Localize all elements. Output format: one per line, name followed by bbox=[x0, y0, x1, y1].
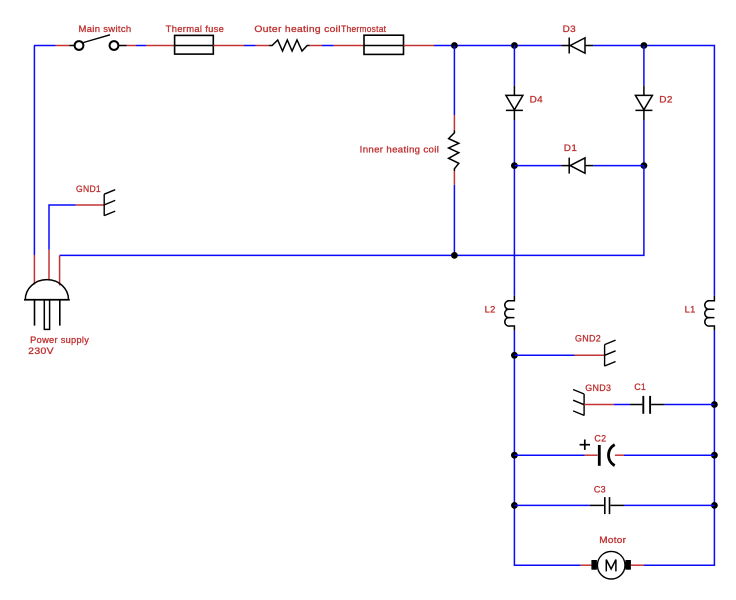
wire red lead out of switch bbox=[127, 45, 137, 47]
junction node GND2 tap bbox=[511, 352, 518, 359]
svg-text:D3: D3 bbox=[563, 24, 576, 34]
junction node C3 right bbox=[711, 502, 718, 509]
junction node top of D4 column bbox=[511, 42, 518, 49]
capacitor C2 plates bbox=[599, 445, 614, 466]
wire red lead into thermal fuse bbox=[146, 45, 175, 47]
wire red lead into outer heating coil bbox=[256, 45, 270, 47]
junction node D2-D1 bbox=[641, 162, 648, 169]
wire blue C2 to right rail bbox=[624, 454, 714, 456]
wire blue from top junction down to D2 bbox=[643, 46, 645, 86]
svg-text:L2: L2 bbox=[485, 305, 496, 315]
wire top rail blue segment to switch bbox=[34, 45, 56, 47]
wire blue C1 to right rail bbox=[664, 404, 714, 406]
motor terminal left bbox=[591, 560, 597, 570]
wire red lead out of motor right bbox=[631, 564, 644, 566]
junction node top of inner heating coil bbox=[451, 42, 458, 49]
svg-text:Inner heating coil: Inner heating coil bbox=[360, 145, 440, 155]
wire blue C3 to right rail bbox=[624, 504, 714, 506]
svg-text:C2: C2 bbox=[594, 433, 606, 443]
plug pin middle bbox=[44, 300, 49, 330]
wire blue D2 to D1 junction bbox=[643, 120, 645, 166]
capacitor C3 row bbox=[514, 484, 714, 514]
junction node top of D2 column bbox=[641, 42, 648, 49]
wire blue L2 down to GND2 junction and C2 junction and C3 junction then motor corner bbox=[514, 331, 580, 565]
plug body dome bbox=[25, 280, 68, 300]
wire red lead out of thermostat bbox=[404, 45, 435, 47]
ground symbol GND3 (mirrored) bbox=[573, 390, 584, 416]
fuse F1 Thermal fuse bbox=[175, 35, 214, 54]
svg-text:C1: C1 bbox=[634, 382, 646, 392]
wire blue GND1 net from plug middle column bbox=[49, 205, 76, 250]
wire blue D4 to D1 junction and down through crossing to L2 bbox=[513, 120, 515, 296]
wire red lead into main switch bbox=[56, 45, 70, 47]
wire blue left rail to C3 bbox=[514, 504, 589, 506]
svg-text:Outer heating coil: Outer heating coil bbox=[254, 24, 341, 34]
ground symbol GND2 bbox=[605, 340, 616, 366]
wire blue segment coil to thermostat bbox=[322, 45, 334, 47]
svg-text:D4: D4 bbox=[530, 94, 543, 104]
resistor Outer heating coil bbox=[269, 40, 310, 51]
capacitor C2 (polarized) row bbox=[514, 433, 714, 465]
svg-text:Main switch: Main switch bbox=[79, 24, 132, 34]
wire red plug right pin lead bbox=[59, 255, 61, 285]
plug pin left bbox=[34, 300, 36, 326]
svg-text:GND1: GND1 bbox=[76, 184, 101, 194]
power supply plug PS1 bbox=[24, 250, 89, 356]
wire red plug middle pin lead bbox=[48, 250, 50, 280]
wire blue segment switch to fuse bbox=[136, 45, 146, 47]
svg-text:Thermal fuse: Thermal fuse bbox=[166, 24, 225, 34]
inductor L1 bbox=[685, 296, 715, 331]
wire blue D4 junction to D1 bbox=[514, 165, 561, 167]
wire blue from top junction down to inner heating coil bbox=[453, 46, 455, 116]
svg-text:GND2: GND2 bbox=[575, 334, 601, 344]
wire red lead into motor left bbox=[580, 564, 591, 566]
svg-text:Power supply: Power supply bbox=[30, 335, 89, 345]
motor M letter bbox=[606, 560, 616, 572]
wire red plug left pin lead bbox=[33, 255, 35, 285]
wire red lead into inner heating coil bbox=[453, 115, 455, 130]
resistor Inner heating coil bbox=[449, 130, 459, 171]
ground GND3 with capacitor C1 branch bbox=[573, 382, 714, 416]
wire blue GND2 net bbox=[514, 354, 574, 356]
junction node D4-D1 bbox=[511, 162, 518, 169]
svg-text:Thermostat: Thermostat bbox=[341, 24, 386, 34]
wire blue left rail to C2 bbox=[514, 454, 584, 456]
junction node C2 left bbox=[511, 452, 518, 459]
svg-text:GND3: GND3 bbox=[585, 383, 611, 393]
wire blue return: D1-D2 junction down and left along return rail bbox=[60, 166, 644, 256]
ground GND2 bbox=[514, 334, 615, 367]
motor M1 row bbox=[580, 535, 644, 579]
switch S1 Main switch bbox=[70, 35, 127, 50]
wire blue GND3 to C1 bbox=[614, 404, 630, 406]
junction node C3 left bbox=[511, 502, 518, 509]
wire blue inner coil to return rail bbox=[453, 185, 455, 256]
diode D3 bbox=[561, 38, 593, 54]
svg-text:Motor: Motor bbox=[599, 535, 626, 545]
capacitor C2 plus sign bbox=[580, 440, 590, 450]
wire red lead into thermostat bbox=[334, 45, 365, 47]
wire red lead to GND2 bbox=[575, 354, 605, 356]
wire red lead out of inner heating coil bbox=[453, 171, 455, 185]
wire blue segment fuse to coil bbox=[244, 45, 256, 47]
ground GND1 bbox=[49, 184, 115, 250]
junction node inner coil to return rail bbox=[451, 252, 458, 259]
wire red lead to GND1 bbox=[76, 204, 104, 206]
coil winding L2 bbox=[505, 296, 515, 331]
svg-text:D2: D2 bbox=[659, 94, 672, 104]
capacitor C1 bbox=[630, 396, 664, 414]
svg-text:D1: D1 bbox=[564, 143, 577, 153]
wire blue from top junction down to D4 bbox=[513, 46, 515, 86]
junction node C1 right bbox=[711, 401, 718, 408]
wire blue top rail to right corner bbox=[434, 45, 561, 47]
diode D2 bbox=[635, 86, 652, 120]
thermostat TH1 bbox=[364, 35, 404, 54]
junction node C2 right bbox=[711, 452, 718, 459]
wire blue top rail D3 to right rail corner bbox=[593, 46, 714, 296]
capacitor C3 bbox=[590, 497, 624, 514]
wire blue D1 to D2 junction bbox=[593, 165, 644, 167]
wire red lead out of thermal fuse bbox=[213, 45, 244, 47]
wire red lead from GND3 bbox=[584, 404, 614, 406]
diode D4 bbox=[506, 86, 523, 120]
ground symbol GND1 bbox=[104, 190, 115, 216]
plug pin right bbox=[59, 300, 61, 326]
svg-text:C3: C3 bbox=[594, 484, 606, 494]
wire blue right rail L1 down to motor corner bbox=[644, 331, 714, 565]
inductor L2 bbox=[485, 296, 515, 331]
wire red lead into C2 bbox=[585, 454, 598, 456]
diode D1 bbox=[561, 158, 593, 174]
wire red lead out of outer heating coil bbox=[310, 45, 322, 47]
wire left rail from top corner down to plug left pin bbox=[33, 46, 35, 256]
wire red lead out of C2 bbox=[615, 454, 624, 456]
svg-text:230V: 230V bbox=[28, 346, 54, 356]
motor terminal right bbox=[625, 560, 631, 570]
motor body bbox=[597, 551, 625, 579]
svg-text:L1: L1 bbox=[685, 305, 696, 315]
